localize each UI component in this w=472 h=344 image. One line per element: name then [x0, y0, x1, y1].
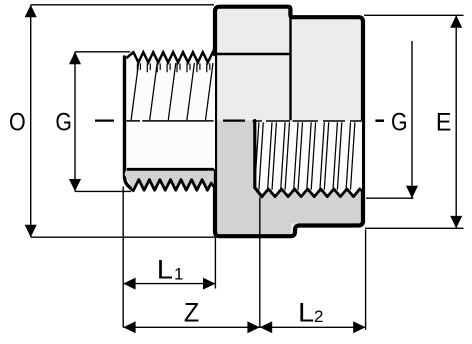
male thread left edge: [125, 57, 134, 190]
dim line G right: [411, 41, 413, 198]
ext line G left bottom: [75, 190, 131, 192]
arrow G left up: [69, 52, 81, 64]
arrow G left down: [69, 179, 81, 191]
ext line G right bottom: [366, 197, 414, 199]
arrow O up: [25, 5, 37, 17]
ext line vertical mid: [259, 198, 261, 328]
ext line vertical right end: [365, 230, 367, 330]
dim line L1: [123, 283, 215, 285]
svg-text:1: 1: [174, 265, 183, 284]
dim line Z: [123, 326, 260, 328]
arrow L2 left: [260, 321, 272, 333]
centerline axis dashes: [95, 119, 245, 121]
arrow Z left: [123, 321, 135, 333]
male thread section grey band: [125, 169, 214, 190]
arrow E up: [450, 15, 462, 27]
dim line L2: [260, 326, 366, 328]
arrow L1 right: [203, 278, 215, 290]
dim line O: [30, 5, 32, 237]
male thread white area: [125, 52, 216, 169]
svg-text:O: O: [9, 108, 26, 136]
arrow Z right: [247, 321, 259, 333]
ext line G left top: [75, 51, 130, 53]
arrow L2 right: [353, 321, 365, 333]
male thread sawtooth crest: [126, 52, 215, 62]
body outline: [215, 7, 363, 237]
centerline dash right of body: [375, 119, 384, 122]
svg-text:Z: Z: [184, 299, 199, 328]
ext line O bottom: [31, 236, 215, 238]
ext line vertical thread start: [122, 187, 124, 328]
ext line E top: [364, 14, 464, 16]
arrow O down: [25, 225, 37, 237]
male thread hatch diagonals: [131, 63, 213, 120]
svg-text:L: L: [298, 298, 314, 328]
ext line vertical body face: [214, 233, 216, 289]
svg-text:E: E: [436, 109, 451, 137]
female thread hatch: [255, 122, 355, 190]
male thread axis boundary line: [126, 120, 213, 122]
male section band top line: [127, 168, 214, 171]
body section-cut lower half dark grey: [214, 121, 291, 235]
svg-text:2: 2: [314, 307, 323, 326]
female thread top dashes: [252, 120, 361, 122]
svg-text:G: G: [55, 108, 72, 136]
body internal step line vertical: [289, 18, 291, 121]
arrow G right down: [406, 186, 418, 198]
male thread valley root lines: [137, 63, 209, 72]
female thread zigzag: [262, 189, 362, 197]
svg-text:L: L: [157, 254, 173, 284]
dim line G left: [74, 52, 76, 192]
female thread white cavity: [255, 121, 362, 197]
female thread left edge: [255, 121, 262, 197]
arrow L1 left: [123, 278, 135, 290]
male section zigzag: [134, 180, 215, 191]
arrow E down: [450, 216, 462, 228]
fitting body silhouette (light grey fill): [215, 7, 363, 237]
ext line O top: [31, 4, 214, 6]
dim line E: [455, 15, 457, 228]
svg-text:G: G: [391, 108, 408, 136]
body internal line horizontal: [217, 53, 290, 55]
ext line E bottom: [365, 227, 464, 229]
